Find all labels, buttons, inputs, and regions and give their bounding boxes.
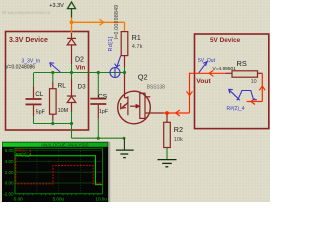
current arrow on rail	[100, 19, 104, 25]
svg-text:kit.ww.easyelectronics.ru: kit.ww.easyelectronics.ru	[2, 10, 51, 15]
power symbol +3.3V	[68, 2, 76, 18]
svg-text:V=0.0248086: V=0.0248086	[5, 64, 35, 70]
main signal wire (3.3V side)	[34, 72, 125, 74]
resistor RL	[52, 73, 54, 82]
svg-text:D3: D3	[78, 83, 87, 90]
node dot CS top	[97, 71, 100, 74]
svg-text:10M: 10M	[58, 108, 69, 114]
x axis labels	[14, 196, 108, 201]
node dot R1 bottom / gate	[123, 71, 126, 74]
probe 5V_Out arrow	[199, 62, 207, 73]
svg-text:4.7k: 4.7k	[132, 44, 143, 50]
svg-text:R#(2)_4: R#(2)_4	[16, 152, 32, 157]
svg-text:-2.00: -2.00	[3, 192, 14, 197]
transistor Q2	[118, 91, 151, 124]
wire RS right down (red)	[261, 73, 263, 101]
plot border	[15, 148, 102, 194]
svg-text:R2: R2	[174, 125, 183, 134]
svg-text:I=0.00098849: I=0.00098849	[114, 5, 120, 40]
current arrow left	[251, 99, 255, 105]
node dot D2/D3	[70, 71, 73, 74]
svg-text:CS: CS	[98, 93, 108, 100]
svg-text:10.0u: 10.0u	[95, 196, 107, 201]
lower green wire to ground	[72, 137, 125, 139]
diode D3	[71, 73, 73, 79]
probe 3_3V_In arrow	[50, 63, 61, 73]
svg-text:+3.3V: +3.3V	[49, 3, 64, 9]
y axis labels	[3, 148, 14, 197]
3.3V device box	[6, 32, 89, 131]
h gridlines	[15, 150, 102, 183]
wire orange down to R1	[124, 22, 126, 31]
wire rail horizontal to R1	[72, 21, 125, 23]
wire up to Vout line (red)	[189, 73, 191, 113]
trace red	[16, 158, 103, 184]
generator R#(2)_4 pulse symbol	[229, 89, 257, 100]
current probe Rd[1]	[110, 56, 121, 78]
node dot RL bottom	[51, 122, 54, 125]
title bar	[2, 142, 107, 146]
Vout wire (red)	[190, 72, 226, 74]
svg-text:5pF: 5pF	[36, 109, 46, 115]
resistor RS	[226, 72, 233, 74]
diode D2	[67, 33, 76, 64]
bottom rail green (inside box)	[34, 123, 72, 125]
svg-text:CL: CL	[35, 91, 44, 98]
svg-text:Q2: Q2	[138, 73, 148, 82]
node dot D3 bottom	[70, 122, 73, 125]
svg-text:1pF: 1pF	[99, 109, 108, 115]
v gridlines dotted	[37, 148, 81, 193]
svg-text:Vout: Vout	[196, 78, 211, 85]
svg-text:RS: RS	[237, 59, 247, 68]
svg-text:10: 10	[251, 79, 257, 85]
svg-text:5V Device: 5V Device	[210, 37, 241, 44]
svg-text:2.00: 2.00	[5, 170, 14, 175]
wire Q2 to junction (red)	[164, 112, 190, 114]
axis ticks	[19, 194, 98, 195]
node dot lower wire corner	[123, 137, 126, 140]
wire down from D3 node	[71, 124, 73, 139]
svg-text:5.00u: 5.00u	[53, 196, 65, 201]
svg-text:10k: 10k	[174, 137, 183, 143]
svg-text:3.3V Device: 3.3V Device	[9, 37, 48, 44]
resistor R1	[121, 32, 128, 56]
svg-text:BSS138: BSS138	[147, 85, 166, 91]
trace green	[15, 156, 102, 185]
ground 2	[158, 160, 177, 167]
svg-text:0.00: 0.00	[5, 181, 14, 186]
svg-text:D2: D2	[75, 57, 84, 64]
wire down to ground 1	[123, 138, 125, 150]
current arrow down	[187, 91, 193, 95]
node dot R2 top	[165, 111, 169, 115]
node dot RL top	[51, 71, 54, 74]
wire green D2 to node	[71, 64, 73, 73]
current arrow up	[259, 86, 265, 90]
oscilloscope window	[2, 142, 108, 202]
svg-text:RL: RL	[58, 82, 67, 89]
resistor R2	[166, 115, 168, 123]
wire to generator (red)	[247, 101, 263, 103]
svg-text:6.00: 6.00	[5, 148, 14, 153]
current arrow left on wire	[176, 110, 180, 116]
node junction rail	[70, 20, 74, 24]
ground 1	[116, 150, 134, 158]
svg-text:R1: R1	[132, 35, 141, 42]
svg-text:ANALOGUE ANALYSIS: ANALOGUE ANALYSIS	[41, 142, 89, 147]
window right border	[108, 142, 110, 202]
svg-text:Rd[1]: Rd[1]	[108, 36, 114, 51]
node dot CS bottom	[97, 137, 100, 140]
wire gate down (dark red)	[124, 74, 126, 98]
svg-text:0.00: 0.00	[14, 196, 23, 201]
capacitor CS	[97, 73, 99, 95]
svg-text:R#(2)_4: R#(2)_4	[227, 106, 245, 112]
wire rail orange vertical from power	[71, 18, 73, 34]
current arrow left on Vout wire	[209, 70, 213, 76]
5V device box	[195, 34, 269, 129]
svg-text:4.00: 4.00	[5, 159, 14, 164]
svg-text:Vin: Vin	[76, 65, 86, 72]
capacitor CL	[33, 73, 35, 87]
